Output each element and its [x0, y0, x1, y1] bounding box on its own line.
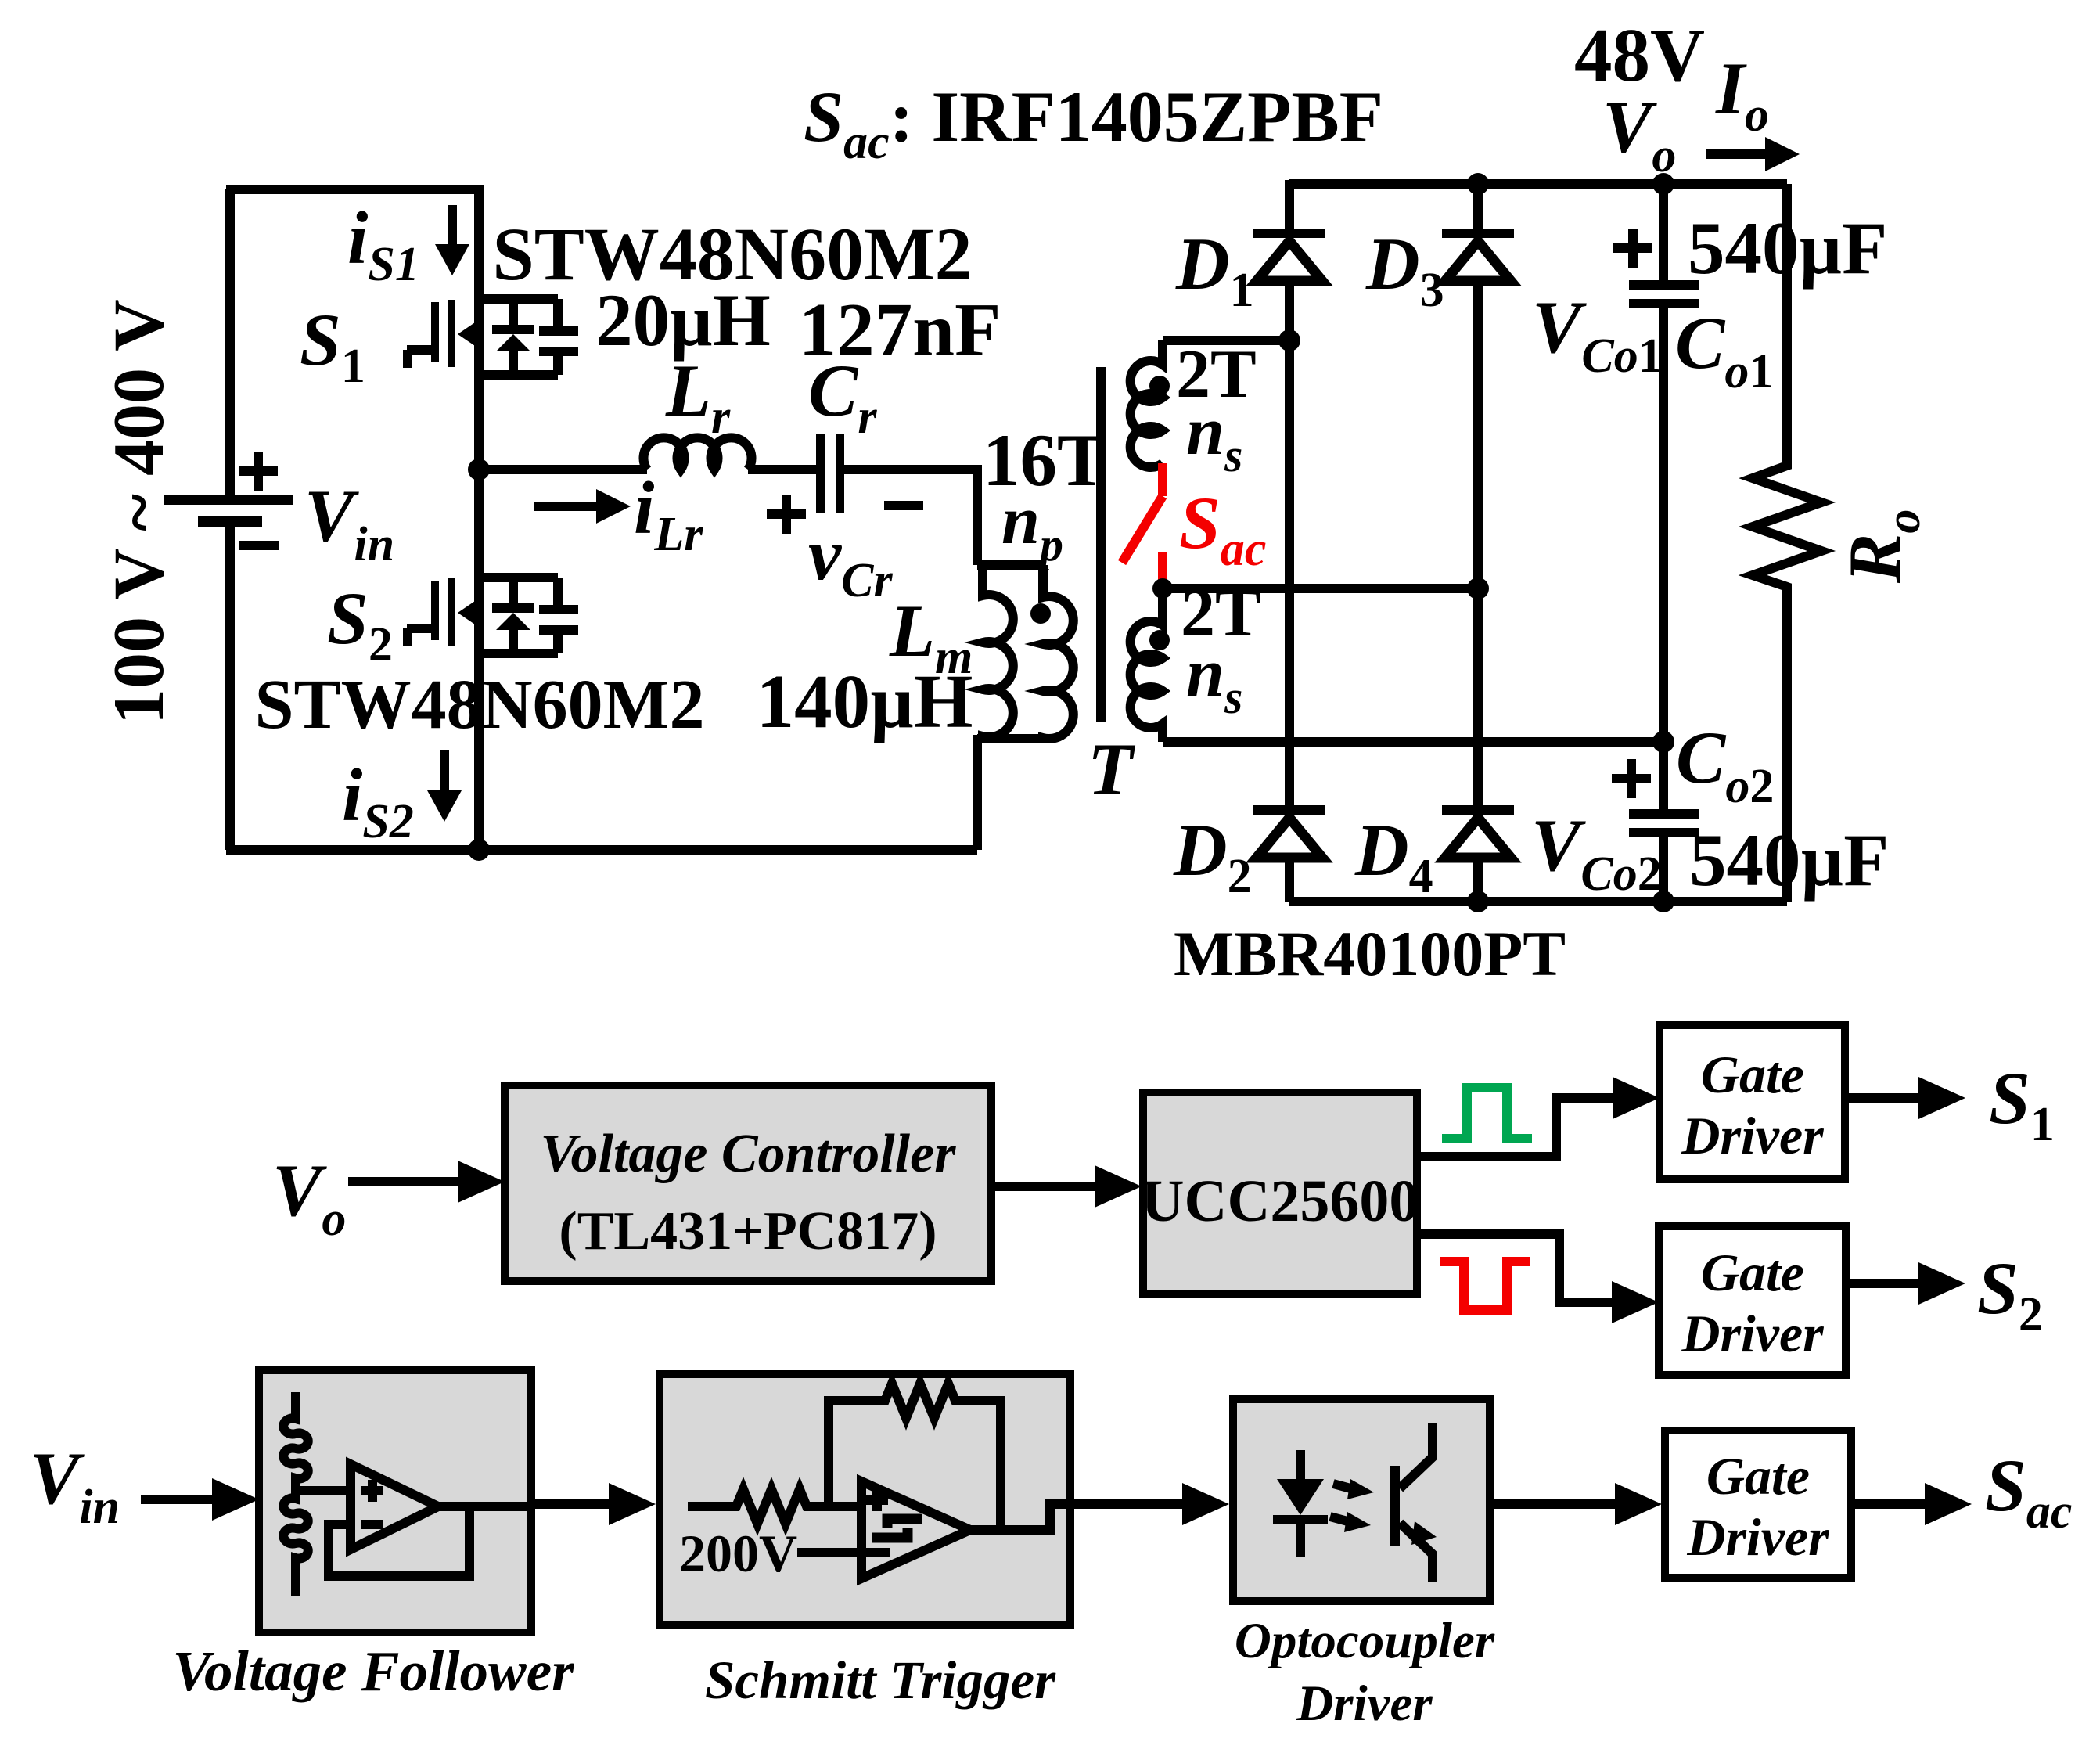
arrow Gate Driver 3 to Sac — [1851, 1483, 1972, 1525]
svg-text:D1: D1 — [1175, 222, 1254, 317]
label Sac (output) — [1985, 1444, 2072, 1539]
label S2 — [327, 577, 393, 671]
label D1 — [1175, 222, 1254, 317]
resistor feedback (in Schmitt Trigger) — [829, 1384, 1001, 1530]
resistor input (in Schmitt Trigger) — [688, 1489, 861, 1524]
block Optocoupler Driver — [1233, 1399, 1490, 1601]
label np — [1001, 483, 1063, 570]
title Sac: IRF1405ZPBF — [804, 77, 1383, 169]
capacitor Co1 — [1613, 184, 1699, 742]
label iS1 — [347, 196, 419, 291]
inductor Lr — [644, 437, 752, 470]
wire Cr to primary — [844, 470, 1043, 565]
arrow iS2 down — [427, 750, 462, 822]
arrow Vin to Voltage Follower — [141, 1478, 259, 1521]
bottom rail wire — [226, 845, 977, 855]
svg-text:D4: D4 — [1354, 808, 1433, 903]
wire op-amp2 output — [970, 1504, 1070, 1530]
label ns (bottom) — [1186, 635, 1242, 723]
input loop left wall wire — [225, 189, 235, 850]
arrow Io — [1706, 137, 1800, 171]
block Schmitt Trigger — [660, 1374, 1070, 1625]
capacitor Cr — [816, 434, 844, 513]
block Voltage Controller — [505, 1085, 991, 1281]
block Voltage Follower — [259, 1370, 531, 1632]
svg-text:Vin: Vin — [30, 1437, 120, 1534]
svg-text:Gate: Gate — [1701, 1045, 1804, 1104]
svg-text:iS2: iS2 — [342, 754, 414, 848]
svg-text:T: T — [1088, 728, 1136, 811]
node mid (junction dot) — [468, 459, 490, 480]
block Gate Driver 1 — [1660, 1025, 1845, 1179]
svg-text:Driver: Driver — [1681, 1304, 1824, 1363]
svg-text:Gate: Gate — [1706, 1446, 1810, 1506]
node D3 top (junction dot) — [1467, 173, 1489, 195]
svg-text:100 V ~ 400 V: 100 V ~ 400 V — [99, 299, 178, 725]
node center tap at D3/D4 (junction dot) — [1467, 578, 1489, 599]
label D2 — [1173, 808, 1252, 903]
label ns (top) — [1186, 394, 1242, 481]
wire UCC25600 to Gate Driver 1 — [1417, 1077, 1660, 1157]
label Schmitt Trigger — [705, 1650, 1056, 1710]
LED (in optocoupler) — [1273, 1450, 1328, 1557]
svg-text:Voltage Controller: Voltage Controller — [541, 1124, 957, 1184]
wire primary bottom stub — [977, 735, 1043, 850]
label MBR40100PT — [1174, 918, 1566, 989]
label Vo (control input) — [272, 1149, 346, 1246]
diode D1 — [1253, 180, 1325, 805]
label Co1 — [1675, 301, 1773, 398]
label Ro (rotated) — [1833, 509, 1930, 584]
wire divider tap to op-amp — [296, 1486, 351, 1495]
label D4 — [1354, 808, 1433, 903]
svg-text:Driver: Driver — [1686, 1507, 1829, 1567]
resistor Ro — [1753, 184, 1821, 902]
wire op-amp output and feedback — [329, 1506, 531, 1576]
block Gate Driver 2 — [1659, 1226, 1846, 1375]
label Lr — [665, 349, 731, 444]
wire secondary bottom to Co2 top — [1163, 737, 1663, 747]
svg-text:D3: D3 — [1365, 222, 1444, 317]
arrow iS1 down — [435, 205, 469, 275]
arrow Gate Driver 2 to S2 — [1846, 1262, 1965, 1305]
svg-text:iS1: iS1 — [347, 196, 419, 291]
transformer secondary winding ns (bottom) — [1131, 588, 1170, 742]
phototransistor Q1 (in optocoupler) — [1390, 1423, 1437, 1582]
label 200V and inverting input wire — [679, 1524, 890, 1583]
svg-text:Schmitt Trigger: Schmitt Trigger — [705, 1650, 1056, 1710]
light arrows (in optocoupler) — [1330, 1479, 1374, 1532]
transformer core — [1096, 367, 1106, 722]
inductor Lm winding — [983, 565, 1013, 739]
top rail wire — [226, 185, 479, 194]
svg-text:Sac: IRF1405ZPBF: Sac: IRF1405ZPBF — [804, 77, 1383, 169]
transformer primary winding np — [1030, 565, 1073, 739]
label Io — [1715, 47, 1769, 142]
svg-text:S2: S2 — [327, 577, 393, 671]
symbol gate pulse S2 (red) — [1440, 1262, 1530, 1310]
label iLr — [634, 466, 703, 561]
svg-text:STW48N60M2: STW48N60M2 — [254, 666, 704, 743]
svg-text:20µH: 20µH — [595, 279, 771, 362]
wire secondary top stub — [1163, 336, 1289, 345]
label Vin — [304, 474, 394, 571]
label VCo2 — [1531, 804, 1662, 901]
label Cr — [808, 349, 877, 444]
label Sac (red) — [1179, 481, 1266, 576]
wire center tap to D3/D4 column — [1163, 584, 1478, 593]
transformer secondary winding ns (top) — [1131, 340, 1170, 467]
svg-text:200V: 200V — [679, 1524, 797, 1583]
label Optocoupler Driver — [1235, 1613, 1495, 1732]
svg-text:Optocoupler: Optocoupler — [1235, 1613, 1495, 1669]
node bottom (junction dot) — [468, 839, 490, 861]
diode D4 — [1442, 588, 1514, 902]
label STW48N60M2 (S1) — [492, 212, 972, 296]
label 127nF — [799, 288, 1001, 372]
node Co2 bottom (junction dot) — [1652, 891, 1674, 912]
label iS2 — [342, 754, 414, 848]
label Voltage Follower — [172, 1639, 574, 1703]
wire Voltage Controller to UCC25600 — [991, 1165, 1142, 1208]
label Lm — [889, 589, 973, 684]
svg-text:Lr: Lr — [665, 349, 731, 444]
label T — [1088, 728, 1136, 811]
svg-text:D2: D2 — [1173, 808, 1252, 903]
wire Optocoupler Driver to Gate Driver 3 — [1490, 1483, 1662, 1525]
svg-text:127nF: 127nF — [799, 288, 1001, 372]
half-bridge center column wire — [474, 185, 484, 850]
svg-text:Co2: Co2 — [1676, 716, 1774, 813]
svg-text:MBR40100PT: MBR40100PT — [1174, 918, 1566, 989]
node center tap (junction dot) — [1152, 578, 1173, 599]
label 16T — [983, 419, 1106, 502]
label 2T (top) — [1176, 337, 1257, 412]
node secondary top (junction dot) — [1278, 329, 1300, 351]
label 20uH — [595, 279, 771, 362]
svg-text:Driver: Driver — [1681, 1106, 1824, 1165]
battery Vin — [164, 452, 293, 545]
svg-text:Vo: Vo — [1602, 85, 1676, 182]
wire rectifier bottom rail — [1289, 897, 1787, 906]
svg-text:Sac: Sac — [1179, 481, 1266, 576]
op-amp U2 (schmitt) — [861, 1481, 970, 1578]
label S2 (output) — [1977, 1247, 2043, 1341]
label Vin (control input) — [30, 1437, 120, 1534]
svg-text:S1: S1 — [300, 298, 365, 393]
node Co1 bottom / Co2 top (junction dot) — [1652, 731, 1674, 753]
label 140uH — [757, 660, 973, 743]
wire Schmitt Trigger to Optocoupler Driver — [1070, 1483, 1229, 1525]
label Vo (top) — [1602, 85, 1676, 182]
wire Lr to Cr — [748, 465, 816, 474]
transistor S2 (MOSFET with body diode and capacitor) — [407, 578, 578, 653]
label + vCr - — [767, 495, 923, 607]
diode D2 — [1253, 805, 1325, 902]
label 540uF (top) — [1688, 207, 1887, 290]
block Gate Driver 3 — [1665, 1431, 1851, 1578]
switch Sac (red) — [1122, 463, 1163, 588]
svg-text:Ro: Ro — [1833, 509, 1930, 584]
label 100 V ~ 400 V (rotated) — [99, 299, 178, 725]
label Co2 — [1676, 716, 1774, 813]
svg-text:iLr: iLr — [634, 466, 703, 561]
wire mid node to Lr — [479, 465, 647, 474]
op-amp U1 (voltage follower) — [351, 1464, 438, 1549]
svg-text:S1: S1 — [1989, 1056, 2055, 1151]
label S1 (output) — [1989, 1056, 2055, 1151]
node Vo / Co1 top (junction dot) — [1652, 173, 1674, 195]
label 48V — [1574, 13, 1705, 97]
svg-text:vCr: vCr — [808, 513, 894, 607]
label STW48N60M2 (S2) — [254, 666, 704, 743]
label 2T (bottom) — [1181, 575, 1261, 651]
diode D3 — [1442, 184, 1514, 588]
svg-text:(TL431+PC817): (TL431+PC817) — [559, 1201, 937, 1262]
capacitor Co2 — [1612, 742, 1699, 902]
transistor S1 (MOSFET with body diode and capacitor) — [407, 299, 578, 375]
wire UCC25600 to Gate Driver 2 — [1417, 1234, 1659, 1323]
svg-text:S2: S2 — [1977, 1247, 2043, 1341]
wire rectifier top rail — [1289, 179, 1787, 189]
svg-text:Io: Io — [1715, 47, 1769, 142]
svg-text:Voltage Follower: Voltage Follower — [172, 1639, 574, 1703]
symbol gate pulse S1 (green) — [1442, 1088, 1532, 1139]
arrow iLr — [534, 489, 631, 524]
label 540uF (bottom) — [1689, 819, 1889, 902]
svg-text:48V: 48V — [1574, 13, 1705, 97]
label VCo1 — [1532, 286, 1663, 383]
svg-text:Sac: Sac — [1985, 1444, 2072, 1539]
wire Voltage Follower to Schmitt Trigger — [531, 1483, 656, 1525]
svg-text:Gate: Gate — [1701, 1243, 1804, 1302]
arrow Gate Driver 1 to S1 — [1845, 1077, 1965, 1119]
label D3 — [1365, 222, 1444, 317]
svg-text:Vo: Vo — [272, 1149, 346, 1246]
arrow Vo to Voltage Controller — [348, 1161, 505, 1203]
resistor divider (in Voltage Follower) — [283, 1392, 307, 1596]
svg-text:UCC25600: UCC25600 — [1142, 1168, 1419, 1234]
svg-text:Co1: Co1 — [1675, 301, 1773, 398]
block UCC25600 — [1142, 1092, 1419, 1294]
svg-text:Vin: Vin — [304, 474, 394, 571]
label S1 — [300, 298, 365, 393]
node D4 bottom (junction dot) — [1467, 891, 1489, 912]
svg-text:Driver: Driver — [1296, 1675, 1433, 1732]
svg-text:140µH: 140µH — [757, 660, 973, 743]
